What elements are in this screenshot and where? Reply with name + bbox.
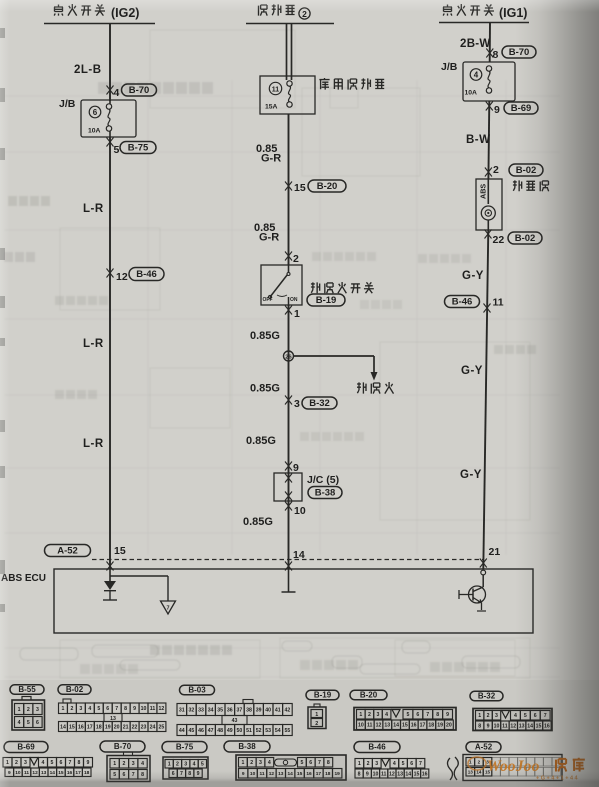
svg-text:B-02: B-02	[515, 233, 536, 244]
wire: ABS lamp to ECU pin 21, colour G-Y	[460, 230, 488, 569]
svg-text:2: 2	[487, 713, 490, 719]
pin 9 of joint connector	[285, 462, 299, 475]
junction 26 with branch to brake lamps	[284, 351, 378, 381]
wire: IG2 feed down to J/B, label 2L-B	[74, 24, 110, 102]
connector pinout B-69	[3, 742, 93, 777]
svg-text:B-19: B-19	[316, 295, 337, 306]
svg-text:14: 14	[60, 724, 66, 730]
stop lamp switch box (brake light switch)	[261, 265, 302, 305]
connector pinout B-20	[350, 690, 456, 730]
svg-text:49: 49	[227, 728, 233, 734]
svg-text:37: 37	[237, 707, 243, 713]
svg-text:14: 14	[50, 770, 56, 776]
header: fuse (2) title	[259, 4, 311, 19]
svg-text:15: 15	[294, 182, 306, 194]
svg-text:J/B: J/B	[441, 61, 458, 73]
svg-text:B-70: B-70	[129, 85, 150, 96]
svg-text:9: 9	[446, 712, 449, 718]
svg-text:39: 39	[256, 707, 262, 713]
svg-text:9: 9	[8, 770, 11, 776]
svg-text:2: 2	[70, 706, 73, 712]
svg-text:1: 1	[168, 762, 171, 768]
svg-text:J/B: J/B	[59, 98, 76, 110]
dedicated fuse box with fuse 11 15A	[260, 76, 315, 114]
connector pinout B-38	[224, 741, 346, 780]
svg-text:B-75: B-75	[176, 743, 194, 752]
svg-text:17: 17	[316, 771, 322, 777]
svg-text:B-19: B-19	[314, 691, 332, 700]
svg-text:2: 2	[478, 759, 481, 764]
svg-text:7: 7	[166, 606, 169, 612]
svg-text:11: 11	[272, 87, 280, 94]
ECU pin 15 entry chevron	[107, 562, 114, 571]
wire: left main run to ECU pin 15, wire colour L-R	[83, 137, 110, 569]
svg-text:3: 3	[375, 761, 378, 767]
header underline fuse	[246, 23, 334, 25]
svg-text:0.85G: 0.85G	[250, 330, 280, 342]
svg-text:4: 4	[18, 720, 21, 726]
svg-text:1: 1	[315, 712, 318, 718]
svg-text:51: 51	[246, 728, 252, 734]
svg-text:5: 5	[113, 772, 116, 778]
svg-text:31: 31	[179, 707, 185, 713]
svg-text:B-03: B-03	[188, 686, 206, 695]
svg-text:0.85G: 0.85G	[243, 516, 273, 528]
svg-text:B-02: B-02	[516, 165, 537, 176]
svg-text:1: 1	[358, 761, 361, 767]
svg-text:16: 16	[67, 770, 73, 776]
connector junction pin 8 (B-70)	[486, 46, 536, 61]
diode inside ECU at pin 15	[103, 569, 117, 600]
svg-text:2: 2	[302, 9, 307, 19]
svg-text:B-70: B-70	[114, 742, 132, 751]
svg-text:19: 19	[335, 771, 341, 777]
connector junction pin 11 (B-46)	[445, 296, 504, 313]
label J/C(5) (B-38)	[307, 474, 342, 499]
left edge scan marks	[0, 28, 5, 38]
svg-text:25: 25	[159, 724, 165, 730]
svg-text:10: 10	[250, 771, 256, 777]
svg-text:15A: 15A	[265, 104, 278, 111]
svg-text:10: 10	[141, 706, 147, 712]
svg-text:B-46: B-46	[368, 743, 386, 752]
svg-text:11: 11	[24, 770, 29, 776]
svg-text:1: 1	[241, 760, 244, 766]
connector junction pin 3 (B-32)	[285, 396, 337, 411]
svg-text:4: 4	[268, 760, 271, 766]
svg-text:3: 3	[184, 762, 187, 768]
double wire from fuse feed	[286, 24, 288, 81]
svg-text:15: 15	[69, 724, 75, 730]
svg-text:10: 10	[294, 505, 306, 517]
svg-text:10A: 10A	[465, 90, 478, 97]
connector pinout A-52 (behind watermark)	[448, 742, 563, 781]
svg-text:OFF: OFF	[263, 297, 273, 303]
svg-text:16: 16	[544, 723, 550, 729]
svg-text:53: 53	[265, 728, 271, 734]
svg-text:B-W: B-W	[466, 134, 491, 146]
wire: middle main run	[288, 114, 290, 265]
svg-text:(IG1): (IG1)	[499, 6, 527, 20]
connector junction pin 9 (B-69)	[486, 102, 538, 117]
svg-text:G-R: G-R	[259, 232, 279, 244]
svg-text:9: 9	[197, 771, 200, 777]
svg-text:5: 5	[114, 144, 120, 156]
svg-text:38: 38	[246, 707, 252, 713]
svg-text:45: 45	[189, 728, 195, 734]
svg-text:8: 8	[358, 771, 361, 777]
svg-text:8: 8	[493, 49, 499, 61]
svg-text:7: 7	[69, 760, 72, 766]
svg-text:7: 7	[419, 761, 422, 767]
svg-text:7: 7	[318, 760, 321, 766]
svg-text:4: 4	[141, 761, 144, 767]
instrument panel ABS warning lamp box	[476, 179, 502, 230]
svg-text:26: 26	[285, 354, 292, 360]
svg-text:52: 52	[256, 728, 262, 734]
connector pinout B-55	[10, 685, 45, 730]
svg-text:8: 8	[327, 760, 330, 766]
svg-text:J/C (5): J/C (5)	[307, 474, 339, 486]
svg-text:L-R: L-R	[83, 438, 104, 450]
connector junction pin 4 (B-70)	[107, 84, 157, 99]
wire: IG1 feed, label 2B-W	[460, 23, 491, 63]
svg-text:5: 5	[201, 762, 204, 768]
svg-text:9: 9	[133, 706, 136, 712]
connector pinout B-03	[177, 685, 292, 735]
svg-text:2: 2	[27, 707, 30, 713]
svg-text:18: 18	[325, 771, 331, 777]
svg-text:1: 1	[294, 308, 300, 320]
svg-text:5: 5	[402, 761, 405, 767]
svg-text:8: 8	[436, 712, 439, 718]
svg-text:B-02: B-02	[66, 685, 84, 694]
svg-text:2: 2	[250, 760, 253, 766]
svg-text:48: 48	[217, 728, 223, 734]
svg-text:2B-W: 2B-W	[460, 38, 491, 50]
svg-text:21: 21	[489, 546, 501, 558]
svg-text:G-R: G-R	[261, 153, 281, 165]
svg-text:19: 19	[105, 724, 111, 730]
watermark WooJoo (orange)	[468, 757, 585, 782]
svg-text:24: 24	[150, 724, 156, 730]
svg-text:11: 11	[367, 723, 373, 729]
label: brake light switch + (B-19)	[307, 282, 374, 306]
svg-text:22: 22	[132, 724, 138, 730]
svg-text:44: 44	[179, 728, 185, 734]
connector junction pin 12 (B-46) on left wire	[107, 268, 165, 284]
svg-text:8: 8	[124, 706, 127, 712]
svg-text:15: 15	[297, 771, 303, 777]
svg-text:3: 3	[495, 713, 498, 719]
label: brake light (zhidongdeng)	[357, 382, 394, 394]
svg-text:15: 15	[58, 770, 64, 776]
svg-text:23: 23	[141, 724, 147, 730]
svg-text:5: 5	[524, 713, 527, 719]
svg-text:4: 4	[385, 712, 388, 718]
svg-text:0.85G: 0.85G	[246, 435, 276, 447]
pin 10 of joint connector	[285, 502, 306, 518]
svg-text:12: 12	[510, 723, 516, 729]
wire label 0.85 G-R (upper)	[256, 143, 281, 165]
branch to ground reference triangle A inside ECU	[110, 576, 176, 614]
svg-text:9: 9	[242, 771, 245, 777]
svg-text:11: 11	[381, 771, 387, 777]
svg-text:14: 14	[405, 771, 411, 777]
fuse box J/B with fuse 6 10A	[81, 100, 136, 137]
svg-text:12: 12	[32, 770, 38, 776]
svg-text:33: 33	[198, 707, 204, 713]
svg-text:7: 7	[180, 771, 183, 777]
svg-text:46: 46	[198, 728, 204, 734]
svg-text:16: 16	[306, 771, 312, 777]
svg-text:17: 17	[87, 724, 93, 730]
svg-text:50: 50	[237, 728, 243, 734]
svg-text:3: 3	[294, 398, 300, 410]
header underline IG2	[44, 23, 155, 25]
svg-text:2: 2	[367, 761, 370, 767]
svg-text:B-70: B-70	[509, 47, 530, 58]
svg-text:36: 36	[227, 707, 233, 713]
wire: to instrument panel, label B-W	[466, 101, 491, 179]
svg-text:2: 2	[15, 760, 18, 766]
svg-text:9: 9	[366, 771, 369, 777]
connector pinout B-75	[162, 742, 208, 780]
svg-text:6: 6	[60, 760, 63, 766]
svg-text:20: 20	[114, 724, 120, 730]
svg-text:2: 2	[315, 721, 318, 727]
svg-text:11: 11	[502, 723, 508, 729]
header: ignition switch (IG1) title	[443, 4, 527, 20]
svg-text:11: 11	[493, 297, 504, 309]
svg-text:5: 5	[300, 760, 303, 766]
svg-text:55: 55	[285, 728, 291, 734]
svg-text:18: 18	[428, 723, 434, 729]
svg-text:(IG2): (IG2)	[111, 6, 139, 20]
svg-text:15: 15	[402, 723, 408, 729]
header: ignition switch (IG2) title	[54, 4, 139, 20]
svg-text:4: 4	[193, 762, 196, 768]
svg-text:2: 2	[123, 761, 126, 767]
svg-text:3: 3	[24, 760, 27, 766]
svg-text:54: 54	[275, 728, 281, 734]
svg-text:18: 18	[96, 724, 102, 730]
svg-text:B-69: B-69	[511, 103, 532, 114]
svg-text:40: 40	[265, 707, 271, 713]
svg-text:1: 1	[62, 706, 65, 712]
svg-text:B-38: B-38	[238, 742, 256, 751]
svg-text:9: 9	[293, 462, 299, 474]
svg-text:ABS: ABS	[479, 184, 488, 199]
svg-text:9: 9	[487, 723, 490, 729]
svg-text:9: 9	[494, 104, 500, 116]
ECU boundary dashed line	[92, 559, 483, 561]
svg-text:0.85G: 0.85G	[250, 383, 280, 395]
svg-text:16: 16	[422, 771, 428, 777]
header underline IG1	[439, 22, 529, 24]
svg-text:A-52: A-52	[57, 546, 78, 557]
svg-text:47: 47	[208, 728, 214, 734]
svg-text:14: 14	[393, 723, 399, 729]
svg-text:B-46: B-46	[452, 297, 473, 308]
svg-text:12: 12	[376, 723, 382, 729]
svg-text:16: 16	[78, 724, 84, 730]
svg-text:11: 11	[150, 706, 156, 712]
connector A-52 label at ECU boundary	[45, 545, 91, 557]
connector pinout B-19	[306, 690, 339, 728]
svg-text:B-20: B-20	[360, 691, 378, 700]
svg-text:3: 3	[377, 712, 380, 718]
svg-text:8: 8	[141, 772, 144, 778]
svg-text:B-20: B-20	[317, 181, 338, 192]
svg-text:1: 1	[478, 713, 481, 719]
svg-text:9: 9	[87, 760, 90, 766]
svg-text:32: 32	[189, 707, 195, 713]
svg-text:10: 10	[15, 770, 21, 776]
svg-text:10A: 10A	[88, 128, 101, 135]
svg-text:6: 6	[309, 760, 312, 766]
svg-text:7: 7	[132, 772, 135, 778]
svg-text:1: 1	[6, 760, 9, 766]
svg-text:2: 2	[176, 762, 179, 768]
wire label 0.85 G-R (lower)	[254, 222, 279, 244]
svg-text:13: 13	[41, 770, 47, 776]
svg-text:6: 6	[36, 720, 39, 726]
svg-text:1: 1	[359, 712, 362, 718]
svg-text:3: 3	[132, 761, 135, 767]
svg-text:4: 4	[474, 71, 479, 80]
svg-text:13: 13	[397, 771, 403, 777]
svg-text:17: 17	[420, 723, 426, 729]
connector pinout B-46	[354, 742, 429, 779]
svg-text:15: 15	[114, 545, 126, 557]
svg-text:8: 8	[188, 771, 191, 777]
svg-text:3: 3	[259, 760, 262, 766]
label: instrument panel (yibiaoban)	[513, 180, 549, 191]
label: dedicated fuse (zhuanyong baoxiansi)	[319, 78, 384, 90]
svg-text:11: 11	[259, 771, 264, 777]
svg-text:42: 42	[285, 707, 291, 713]
svg-text:2L-B: 2L-B	[74, 64, 102, 76]
svg-text:13: 13	[110, 716, 116, 722]
svg-text:4: 4	[514, 713, 517, 719]
bottom area tone band	[0, 680, 599, 787]
svg-text:13: 13	[278, 771, 284, 777]
transistor (lamp driver) inside ECU	[459, 586, 486, 611]
svg-text:10: 10	[494, 723, 500, 729]
svg-text:+ G + 4 + 1 + 4 4: + G + 4 + 1 + 4 4	[536, 776, 579, 782]
pin 2 of stop lamp switch	[285, 252, 299, 266]
svg-text:A-52: A-52	[475, 743, 493, 752]
svg-text:B-46: B-46	[136, 269, 157, 280]
connector pinout B-32	[470, 691, 552, 730]
svg-text:3: 3	[36, 707, 39, 713]
svg-text:4: 4	[393, 761, 396, 767]
ECU pin 14 entry with terminated stub	[282, 562, 296, 593]
svg-text:5: 5	[27, 720, 30, 726]
svg-text:12: 12	[269, 771, 275, 777]
svg-text:B-75: B-75	[128, 143, 149, 154]
connector junction pin 2 (B-02)	[485, 164, 543, 177]
svg-text:43: 43	[232, 718, 238, 724]
svg-text:1: 1	[113, 761, 116, 767]
connector junction pin 5 (B-75)	[107, 138, 157, 157]
svg-text:10: 10	[358, 723, 364, 729]
svg-text:15: 15	[536, 723, 542, 729]
svg-text:5: 5	[97, 706, 100, 712]
svg-text:ABS ECU: ABS ECU	[1, 573, 46, 584]
svg-text:L-R: L-R	[83, 338, 104, 350]
svg-text:B-38: B-38	[315, 488, 336, 499]
pin 1 below switch	[285, 305, 300, 569]
svg-text:16: 16	[411, 723, 417, 729]
svg-text:5: 5	[407, 712, 410, 718]
svg-text:4: 4	[42, 760, 45, 766]
svg-text:2: 2	[293, 253, 299, 265]
connector junction pin 22 (B-02)	[485, 230, 543, 247]
fuse box J/B with fuse 4 10A (right)	[463, 62, 515, 101]
svg-text:12: 12	[116, 271, 128, 283]
connector pinout B-02	[58, 685, 166, 732]
svg-text:4: 4	[88, 706, 91, 712]
svg-text:2: 2	[368, 712, 371, 718]
svg-text:6: 6	[106, 706, 109, 712]
svg-text:14: 14	[288, 771, 294, 777]
svg-text:12: 12	[159, 706, 165, 712]
connector pinout B-70	[100, 741, 150, 782]
svg-text:B-32: B-32	[309, 398, 330, 409]
svg-text:6: 6	[534, 713, 537, 719]
svg-text:15: 15	[414, 771, 420, 777]
ABS ECU box	[54, 569, 533, 633]
svg-text:5: 5	[51, 760, 54, 766]
svg-text:8: 8	[78, 760, 81, 766]
svg-text:L-R: L-R	[83, 203, 104, 215]
svg-text:3: 3	[79, 706, 82, 712]
svg-text:22: 22	[493, 234, 505, 246]
svg-text:7: 7	[426, 712, 429, 718]
svg-text:B-55: B-55	[18, 685, 36, 694]
svg-text:4: 4	[114, 87, 120, 99]
svg-text:G-Y: G-Y	[460, 469, 482, 481]
svg-text:G-Y: G-Y	[462, 270, 484, 282]
svg-text:B-69: B-69	[17, 743, 35, 752]
svg-text:B-32: B-32	[478, 692, 496, 701]
svg-text:34: 34	[208, 707, 214, 713]
svg-text:6: 6	[93, 108, 98, 117]
svg-text:35: 35	[217, 707, 223, 713]
svg-text:WooJoo: WooJoo	[487, 758, 540, 775]
svg-text:21: 21	[123, 724, 129, 730]
svg-text:2: 2	[493, 164, 499, 176]
joint connector J/C(5) box	[274, 473, 302, 501]
svg-text:6: 6	[123, 772, 126, 778]
svg-text:10: 10	[373, 771, 379, 777]
svg-text:18: 18	[84, 770, 90, 776]
svg-text:14: 14	[527, 723, 533, 729]
svg-text:17: 17	[75, 770, 81, 776]
svg-text:8: 8	[478, 723, 481, 729]
ECU pin 21 entry	[480, 559, 487, 588]
svg-text:19: 19	[437, 723, 443, 729]
svg-text:13: 13	[468, 769, 474, 774]
svg-text:13: 13	[519, 723, 525, 729]
svg-text:6: 6	[172, 771, 175, 777]
svg-text:13: 13	[384, 723, 390, 729]
svg-text:ON: ON	[290, 297, 298, 303]
svg-text:1: 1	[18, 707, 21, 713]
svg-text:6: 6	[416, 712, 419, 718]
